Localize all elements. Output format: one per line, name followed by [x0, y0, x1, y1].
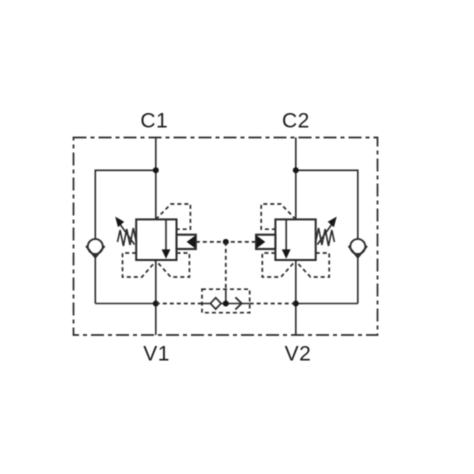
node junction C2/branch — [293, 167, 299, 173]
CB2 top pilot channel (dashed) — [261, 204, 296, 229]
CB2 body — [275, 219, 315, 260]
valve assembly enclosure (chain-dashed boundary) — [74, 138, 378, 336]
wire bottom-left horizontal to V1 node — [95, 303, 156, 305]
CB1 pilot arrow — [187, 236, 196, 249]
wire V1 vertical — [155, 260, 157, 335]
svg-text:V2: V2 — [285, 342, 312, 365]
node junction in component — [223, 301, 229, 307]
pilot line between CB1 and CB2 (dashed) — [196, 241, 256, 243]
CB1 spring — [118, 228, 137, 246]
CB1 left drain pocket (dashed) — [123, 253, 157, 277]
CB2 pilot arrow — [257, 236, 266, 249]
wire through component — [203, 303, 250, 305]
counterbalance valve CB2 (right) — [256, 204, 337, 277]
svg-text:C2: C2 — [282, 110, 310, 133]
svg-text:V1: V1 — [143, 342, 170, 365]
wire dashed pilot check box to V2-node — [250, 303, 296, 305]
node pilot junction — [223, 239, 229, 245]
node junction V2/bottom line — [293, 301, 299, 307]
CB2 internal flow path with arrow — [285, 219, 287, 250]
wire below left check valve — [94, 254, 96, 304]
svg-text:C1: C1 — [140, 110, 168, 133]
pilot line down to shuttle (dashed) — [225, 242, 227, 289]
wire C1 vertical — [155, 138, 157, 220]
wire dashed V1-node to pilot check box — [156, 303, 202, 305]
wire V2 vertical — [295, 260, 297, 335]
check valve CV2 (right) — [349, 239, 368, 258]
wire C2 branch to right check valve — [296, 170, 358, 239]
node junction C1/branch — [153, 167, 159, 173]
wire pilot vertical into shuttle box — [225, 289, 227, 304]
check valve CV1 (left) — [86, 239, 105, 258]
CB2 spring — [315, 228, 334, 246]
CB1 internal flow path with arrow — [165, 219, 167, 250]
CB1 adjustment arrow — [120, 224, 135, 245]
CB1 top pilot channel (dashed) — [156, 204, 191, 229]
orifice diamond — [210, 298, 221, 309]
wire below right check valve — [357, 254, 359, 304]
CB2 left drain pocket (dashed) — [262, 253, 295, 277]
wire C1 branch to left check valve — [95, 170, 156, 239]
pilot check / orifice component — [202, 289, 250, 313]
node junction V1/bottom line — [153, 301, 159, 307]
counterbalance valve CB1 (left) — [115, 204, 196, 277]
component enclosure (dashed) — [202, 289, 250, 313]
CB2 pilot port rectangle — [256, 235, 275, 249]
wire C2 vertical — [295, 138, 297, 220]
wire bottom-right horizontal to V2 node — [296, 303, 358, 305]
check chevron — [235, 297, 241, 309]
CB1 pilot port rectangle — [177, 235, 196, 249]
CB1 body — [136, 219, 176, 260]
CB2 adjustment arrow — [317, 224, 332, 245]
CB1 right drain pocket (dashed) — [156, 253, 189, 277]
CB2 right drain pocket (dashed) — [296, 253, 330, 277]
